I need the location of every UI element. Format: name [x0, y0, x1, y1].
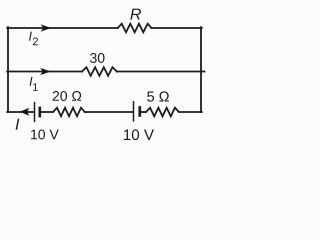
battery 10V left: long plate [34, 103, 36, 122]
label R [130, 9, 141, 20]
current arrow for I1 (middle branch, pointing right) [40, 68, 51, 75]
wire: battery 1 to 20-ohm resistor [41, 111, 54, 113]
label I_2 [29, 32, 38, 46]
wire: middle branch left segment [7, 71, 82, 73]
wire: top rail left segment [7, 27, 118, 29]
wire: left vertical rail [7, 27, 9, 112]
label 10 V left [31, 130, 59, 140]
label 20 ohm [53, 91, 82, 101]
label 10 V right [124, 129, 154, 140]
resistor 20 ohm (zigzag) [53, 108, 85, 117]
wire: 20-ohm resistor to battery 2 [85, 111, 133, 113]
wire: middle branch right segment (crosses right rail, node junction) [117, 71, 205, 73]
current arrow for I2 (top branch, pointing right) [41, 24, 52, 31]
current arrow for I (bottom branch, pointing left) [20, 108, 30, 116]
wire: right vertical rail [200, 27, 202, 112]
label 30 [90, 53, 105, 63]
wire: battery 2 to 5-ohm resistor [141, 111, 147, 113]
label I [16, 119, 20, 130]
wire: bottom rail right segment [179, 111, 202, 113]
battery 10V right: short plate [138, 108, 141, 116]
wire: top rail right segment [152, 27, 202, 29]
resistor 30 (zigzag) [82, 67, 117, 76]
label I_1 [30, 77, 38, 91]
battery 10V left: short plate [38, 108, 41, 116]
resistor 5 ohm (zigzag) [146, 108, 179, 117]
label 5 ohm [147, 91, 169, 101]
wire: bottom rail left segment to battery 1 [7, 111, 34, 113]
battery 10V right: long plate [133, 102, 135, 121]
resistor R (zigzag) [118, 24, 152, 33]
